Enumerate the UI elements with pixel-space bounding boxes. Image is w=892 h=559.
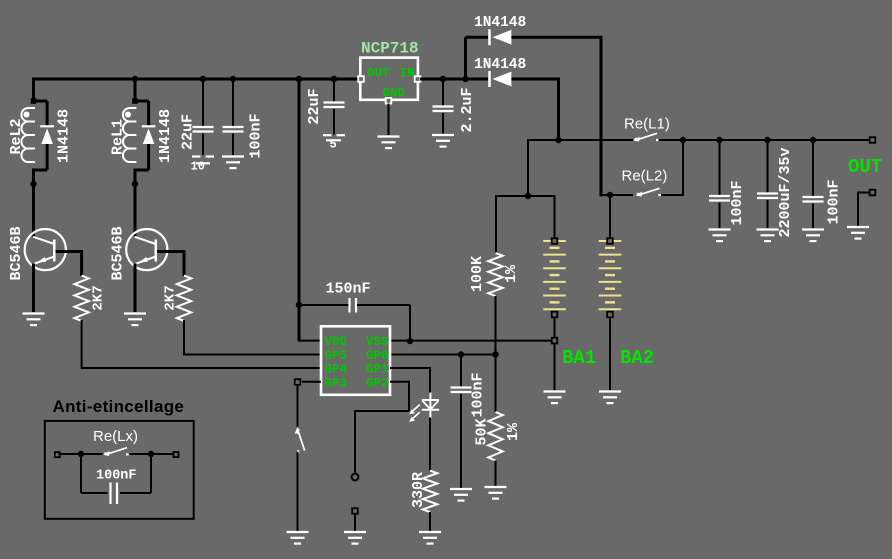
pin pad IN	[415, 76, 421, 82]
relay coil ReL1 with flyback diode 1N4148	[123, 101, 155, 170]
svg-text:1N4148: 1N4148	[474, 57, 526, 73]
junction diode bypass up	[462, 76, 468, 82]
label NCP718	[361, 40, 419, 58]
svg-text:BC546B: BC546B	[8, 226, 25, 280]
wire 100K to GP0 node	[495, 296, 497, 412]
wire 150nF left	[299, 304, 349, 306]
capacitor 100nF (left)	[223, 127, 244, 132]
pin label OUT	[367, 67, 390, 81]
svg-text:1N4148: 1N4148	[56, 109, 73, 163]
svg-text:VDD: VDD	[325, 335, 348, 349]
svg-text:GP2: GP2	[366, 376, 389, 390]
terminal OUT+	[870, 137, 876, 143]
wire 22uF to ground	[202, 134, 204, 155]
svg-text:1%: 1%	[505, 422, 522, 441]
wire 50K to ground	[495, 461, 497, 487]
ground GP2 pad	[344, 532, 366, 544]
wire Q2 base to 2K7	[157, 250, 184, 253]
svg-text:2K7: 2K7	[163, 285, 179, 310]
svg-text:GP5: GP5	[325, 349, 348, 363]
resistor 2K7 (Q1 base)	[74, 276, 88, 321]
capacitor 150nF	[350, 298, 357, 313]
label net 10	[191, 160, 205, 174]
terminal square (GP2)	[352, 508, 358, 514]
label 2200uF/35v	[777, 147, 794, 237]
wire snubber bottom right	[120, 492, 151, 494]
svg-text:10: 10	[191, 160, 205, 174]
wire BA1 to ground	[554, 318, 556, 391]
svg-text:150nF: 150nF	[326, 281, 371, 298]
junction bus/VDD line	[296, 76, 302, 82]
wire bus drop to relay ReL2	[32, 78, 35, 102]
label BC546B (Q2)	[110, 226, 127, 280]
ground 2200uF	[757, 230, 779, 242]
label Re(L2)	[622, 168, 668, 185]
wire bus diode to corner	[511, 78, 560, 81]
capacitor 22uF (right)	[324, 103, 345, 108]
label net 5	[330, 138, 337, 152]
junction bus/100nF	[230, 76, 236, 82]
IC U2 box	[321, 326, 390, 395]
wire GP2 stub	[390, 381, 409, 383]
svg-text:IN: IN	[400, 67, 415, 81]
wire 22uF right down	[333, 109, 335, 135]
wire 150nF down to VSS	[409, 305, 411, 341]
pin pad OUT	[358, 76, 364, 82]
svg-text:BC546B: BC546B	[110, 226, 127, 280]
svg-text:OUT: OUT	[367, 67, 390, 81]
wire Re(Lx) right	[129, 453, 173, 455]
pin label VSS	[366, 335, 389, 349]
junction 2200uF	[764, 137, 770, 143]
wire 2.2uF to ground	[442, 113, 444, 134]
wire to BA2 top	[609, 195, 611, 239]
label ReL2	[8, 118, 25, 154]
diode 1N4148 (on bus)	[490, 71, 512, 87]
wire bus to 22uF	[202, 79, 204, 126]
pin label GP2	[366, 376, 389, 390]
label 2K7 (Q1)	[91, 285, 107, 310]
label 50K	[474, 418, 491, 445]
wire 100nF out1 gnd	[719, 203, 721, 229]
svg-text:1N4148: 1N4148	[474, 15, 526, 31]
pad BA2 -	[607, 312, 613, 318]
wire OUT- to ground	[857, 192, 859, 227]
svg-text:GP1: GP1	[366, 363, 389, 377]
switch (GP3, vertical)	[295, 427, 305, 453]
wire bus down to VDD	[298, 79, 301, 341]
terminal right (Re(Lx))	[174, 452, 179, 457]
junction relay ReL1 top node	[132, 98, 138, 104]
label 100nF out1	[729, 180, 746, 225]
wire 2K7 Q1 to GP4	[81, 320, 83, 368]
ground GP3 switch	[287, 532, 309, 544]
wire GP1 down	[429, 367, 431, 394]
junction Re(L2) return	[680, 137, 686, 143]
label 150nF	[326, 281, 371, 298]
wire GP2 left	[355, 410, 409, 412]
wire switch row left	[528, 139, 633, 141]
svg-text:100K: 100K	[469, 256, 486, 292]
svg-text:100nF: 100nF	[96, 469, 137, 484]
wire GP3 down	[297, 385, 299, 427]
ground with net 5 (22uF right)	[323, 135, 345, 140]
label 330R	[410, 472, 427, 508]
resistor 50K 1%	[488, 412, 502, 461]
svg-text:GP4: GP4	[325, 363, 348, 377]
label 100K	[469, 256, 486, 292]
junction 100nF out2	[810, 137, 816, 143]
svg-text:2K7: 2K7	[91, 285, 107, 310]
junction on ReL2 wire	[30, 181, 36, 187]
svg-text:ReL1: ReL1	[110, 119, 127, 155]
capacitor 100nF (out2)	[803, 197, 824, 202]
label 100nF out2	[826, 179, 843, 224]
wire down to 100K	[495, 195, 497, 253]
svg-text:1%: 1%	[503, 264, 520, 283]
label 1N4148 (ReL1 diode)	[157, 109, 174, 163]
capacitor 2.2uF	[433, 107, 454, 112]
wire 330R to ground	[429, 512, 431, 531]
regulator U1 NCP718 box	[360, 58, 418, 100]
svg-text:22uF: 22uF	[180, 114, 197, 150]
LED (GP1)	[409, 393, 439, 422]
pin pad GND	[386, 98, 392, 104]
capacitor 22uF (left)	[193, 127, 214, 132]
label BA1	[562, 347, 596, 369]
pin label GP3	[325, 376, 348, 390]
wire to BA1 top	[554, 195, 556, 239]
wire Q1 emitter to ground	[32, 264, 35, 313]
pin label GP0	[366, 349, 389, 363]
svg-text:Re(L2): Re(L2)	[622, 168, 668, 185]
label BC546B (Q1)	[8, 226, 25, 280]
capacitor 100nF (snubber)	[111, 483, 118, 505]
junction VSS/150nF	[407, 338, 413, 344]
switch Re(Lx)	[103, 448, 129, 456]
label 22uF (right)	[306, 88, 323, 124]
wire bus to 100nF	[232, 79, 234, 126]
wire Re(L2) up to row	[682, 139, 684, 196]
wire ReL2 to Q1 collector	[32, 170, 35, 236]
svg-text:100nF: 100nF	[729, 180, 746, 225]
junction divider node	[525, 193, 531, 199]
wire to 2.2uF	[442, 79, 444, 106]
svg-text:22uF: 22uF	[306, 88, 323, 124]
wire Q1 base down	[80, 250, 83, 276]
wire GP5 horizontal	[183, 354, 321, 356]
ground out1	[709, 230, 731, 242]
wire corner down to y196	[527, 139, 529, 196]
pad BA1 +	[552, 238, 558, 244]
svg-text:BA2: BA2	[620, 347, 654, 369]
terminal circle (GP2)	[352, 474, 359, 481]
wire IN to diode	[420, 78, 488, 81]
wire VSS row	[390, 340, 553, 342]
ground OUT-	[847, 227, 869, 239]
svg-text:OUT: OUT	[848, 156, 882, 178]
svg-text:GP3: GP3	[325, 376, 348, 390]
capacitor 100nF (GP0)	[451, 388, 472, 393]
junction bus/22uF	[200, 76, 206, 82]
junction at 558	[555, 137, 561, 143]
resistor 2K7 (Q2 base)	[177, 276, 191, 321]
switch Re(L2)	[636, 188, 662, 196]
junction 100nF out1	[716, 137, 722, 143]
wire up to top diode	[464, 37, 467, 79]
wire GP2 to pad	[354, 410, 356, 474]
resistor 330R	[423, 471, 437, 512]
wire 150nF right	[357, 304, 410, 306]
junction 2.2uF branch	[440, 76, 446, 82]
junction bus/ReL1 branch	[132, 76, 138, 82]
wire GND pin to ground	[388, 104, 390, 136]
ground out2	[802, 230, 824, 242]
svg-text:VSS: VSS	[366, 335, 389, 349]
junction on ReL1 wire	[132, 181, 138, 187]
wire GP0 row	[390, 354, 496, 356]
transistor Q2 BC546B	[126, 229, 167, 270]
wire LED to 330R	[429, 418, 431, 471]
junction BA2 branch	[607, 192, 613, 198]
wire VDD into IC	[298, 340, 321, 342]
svg-text:GP0: GP0	[366, 349, 389, 363]
label 2.2uF	[459, 87, 476, 132]
wire 601 corner to Re(L2)	[601, 194, 633, 196]
label OUT	[848, 156, 882, 178]
pin label GP1	[366, 363, 389, 377]
pad BA1 -	[552, 312, 558, 318]
detail box Anti-etincellage	[45, 421, 194, 519]
pad BA1/VSS junction	[552, 338, 558, 344]
terminal OUT-	[870, 190, 876, 196]
svg-text:50K: 50K	[474, 418, 491, 445]
capacitor 100nF (out1)	[709, 196, 730, 201]
pad BA2 +	[607, 238, 613, 244]
label 2K7 (Q2)	[163, 285, 179, 310]
wire after Re(L1)	[659, 139, 873, 141]
wire Re(Lx) left	[59, 453, 103, 455]
switch Re(L1)	[633, 133, 659, 141]
terminal left (Re(Lx))	[55, 452, 60, 457]
wire bus drop to relay ReL1	[134, 79, 137, 101]
wire ReL1 to Q2 collector	[134, 170, 137, 236]
label 100nF (left)	[248, 113, 265, 158]
relay coil ReL2 with flyback diode 1N4148	[21, 101, 53, 170]
wire GP1 stub	[390, 367, 430, 369]
ground BA1	[544, 392, 566, 404]
wire y196 horizontal	[496, 195, 555, 197]
capacitor 2200uF/35v	[757, 194, 778, 199]
wire to 2200uF	[767, 140, 769, 193]
wire BA2 to ground	[609, 318, 611, 391]
svg-text:330R: 330R	[410, 472, 427, 508]
diode 1N4148 (top)	[490, 29, 512, 45]
ground BA2	[599, 392, 621, 404]
svg-text:Re(Lx): Re(Lx)	[93, 428, 138, 445]
label 100nF snubber	[96, 469, 137, 484]
junction snubber right	[148, 451, 154, 457]
wire 100nF to ground	[232, 134, 234, 155]
label 1N4148 (ReL2 diode)	[56, 109, 73, 163]
svg-text:ReL2: ReL2	[8, 118, 25, 154]
wire snubber left down	[80, 453, 82, 493]
battery BA1	[543, 241, 566, 309]
svg-text:2200uF/35v: 2200uF/35v	[777, 147, 794, 237]
svg-text:NCP718: NCP718	[361, 40, 419, 58]
label 1% (50K)	[505, 422, 522, 441]
junction relay ReL2 top node	[31, 98, 37, 104]
ground Q2 emitter	[124, 314, 146, 326]
wire GP3 stub	[302, 381, 321, 383]
svg-text:100nF: 100nF	[470, 372, 487, 417]
wire down right branch	[600, 37, 603, 196]
pin label IN	[400, 67, 415, 81]
wire bus to 22uF right	[333, 79, 335, 102]
wire after Re(L2)	[661, 194, 683, 196]
wire to 100nF out1	[719, 140, 721, 195]
resistor 100K 1%	[488, 253, 502, 296]
svg-text:BA1: BA1	[562, 347, 596, 369]
svg-text:Re(L1): Re(L1)	[624, 116, 670, 133]
title Anti-etincellage	[53, 397, 185, 416]
wire Q2 emitter to ground	[134, 264, 137, 313]
ground 100nF left	[222, 157, 244, 169]
wire 100nF out2 gnd	[812, 204, 814, 229]
wire 2200uF gnd	[767, 200, 769, 228]
svg-text:2.2uF: 2.2uF	[459, 87, 476, 132]
svg-text:100nF: 100nF	[826, 179, 843, 224]
wire down to switch line	[557, 79, 560, 140]
wire top diode to right	[511, 36, 602, 39]
battery BA2	[599, 241, 622, 309]
wire to 100nF out2	[812, 140, 814, 197]
wire snubber right down	[150, 453, 152, 493]
wire main supply bus	[34, 78, 359, 81]
svg-text:Anti-etincellage: Anti-etincellage	[53, 397, 185, 416]
wire Q1 base to 2K7	[56, 250, 82, 253]
wire 100nF mid to ground	[460, 394, 462, 488]
ground 50K	[485, 487, 507, 499]
wire Q2 base down	[183, 250, 186, 276]
transistor Q1 BC546B	[25, 229, 66, 270]
ground with net 10 (22uF)	[192, 157, 214, 164]
ground NCP718	[378, 137, 400, 149]
svg-text:5: 5	[330, 138, 337, 152]
label 1% (100K)	[503, 264, 520, 283]
label 22uF (left)	[180, 114, 197, 150]
label Re(L1)	[624, 116, 670, 133]
label Re(Lx)	[93, 428, 138, 445]
ground 330R	[419, 532, 441, 544]
label 1N4148 top	[474, 15, 526, 31]
label 1N4148 lower	[474, 57, 526, 73]
pin label GP5	[325, 349, 348, 363]
svg-text:1N4148: 1N4148	[157, 109, 174, 163]
junction bus/22uF right	[331, 76, 337, 82]
wire OUT- stub	[858, 192, 870, 194]
svg-text:100nF: 100nF	[248, 113, 265, 158]
wire GP2 down	[408, 381, 410, 411]
label BA2	[620, 347, 654, 369]
wire pad to ground	[354, 514, 356, 531]
ground Q1 emitter	[23, 314, 45, 326]
pin label GP4	[325, 363, 348, 377]
label 100nF (GP0)	[470, 372, 487, 417]
wire to 100nF mid	[460, 355, 462, 388]
pin label VDD	[325, 335, 348, 349]
junction snubber left	[78, 451, 84, 457]
pin label GND	[383, 87, 406, 101]
wire GP4 horizontal	[81, 367, 321, 369]
junction VDD line/150nF	[296, 302, 302, 308]
junction GP0/divider	[492, 351, 498, 357]
junction GP0/100nF	[458, 351, 464, 357]
wire GP3 switch to ground	[297, 452, 299, 531]
pad GP3	[295, 379, 301, 385]
ground 100nF GP0	[450, 489, 472, 501]
wire snubber bottom left	[81, 492, 108, 494]
wire 2K7 Q2 to GP5	[183, 320, 185, 355]
ground 2.2uF	[432, 135, 454, 147]
label ReL1	[110, 119, 127, 155]
wire to top diode	[466, 36, 489, 39]
